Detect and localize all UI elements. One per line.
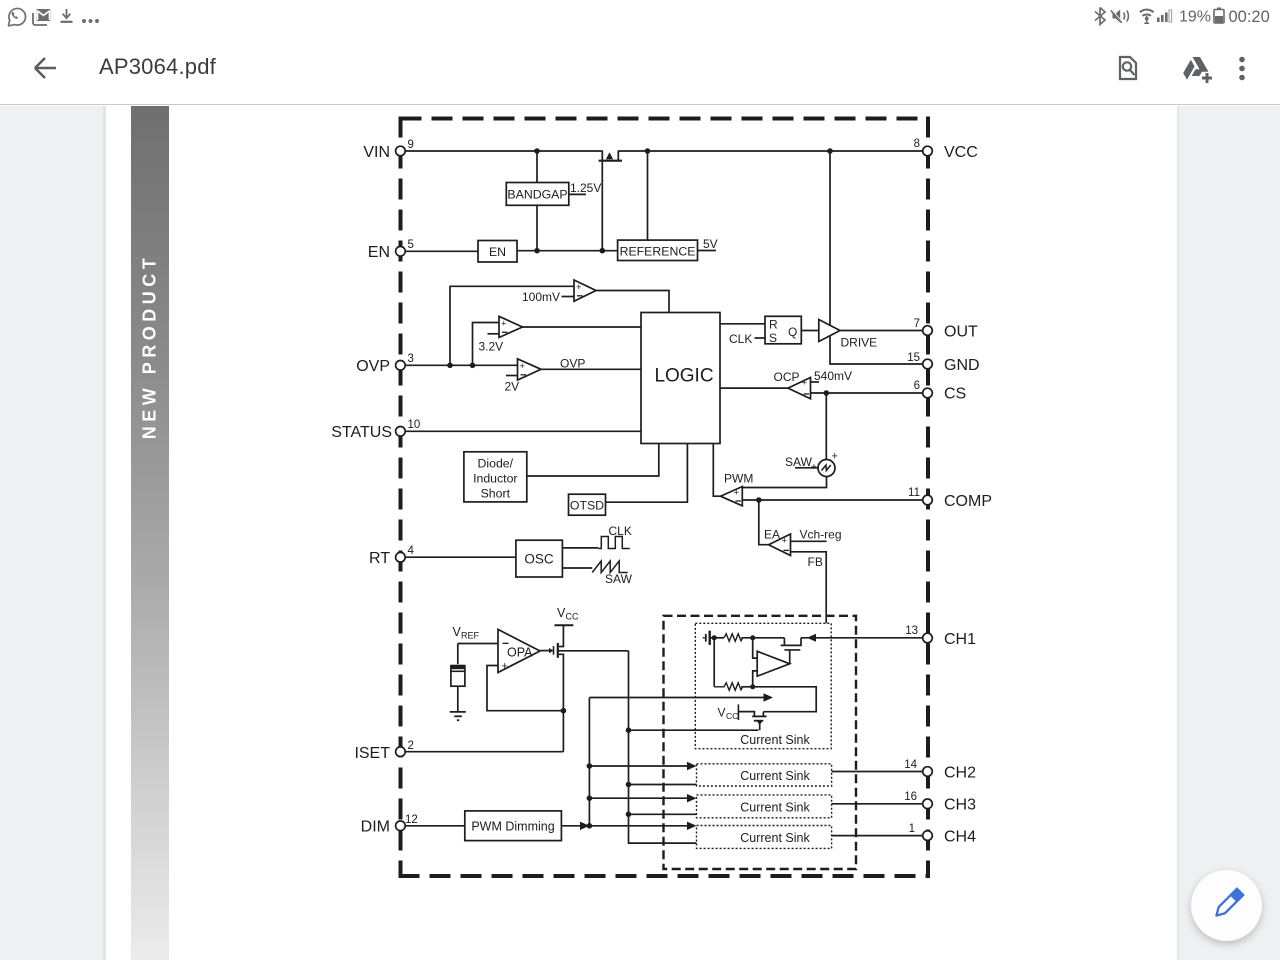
pin circle CH1 [923, 633, 933, 643]
svg-text:REFERENCE: REFERENCE [620, 244, 696, 258]
svg-text:Diode/: Diode/ [478, 457, 514, 471]
wire EA minus input FB line down to current sink [791, 552, 827, 624]
label 540mV with stub [811, 369, 853, 383]
svg-text:540mV: 540mV [814, 369, 852, 383]
IC outer dashed boundary left [399, 117, 403, 877]
node bias bus CH2 junction [626, 782, 632, 788]
floating action button [1191, 870, 1262, 941]
svg-text:2: 2 [408, 740, 414, 752]
wire ISET pin2 [405, 751, 563, 753]
svg-text:BANDGAP: BANDGAP [507, 187, 567, 201]
current sink CH4 dotted box [697, 826, 832, 849]
svg-text:Inductor: Inductor [473, 472, 517, 486]
wire OTSD to LOGIC bottom [606, 444, 688, 503]
current sink group dashed box [664, 616, 857, 869]
wire EN pin5 to EN block [405, 250, 478, 252]
svg-text:V: V [718, 706, 726, 720]
wire VIN pin9 to transistor Q1 source [405, 150, 602, 152]
wire gate bus vertical [588, 698, 590, 826]
svg-text:11: 11 [908, 487, 920, 499]
svg-text:RT: RT [369, 550, 390, 567]
svg-text:REF: REF [461, 631, 480, 641]
wire OVP pin3 line to 2V comparator [405, 364, 518, 366]
op-amp CH1 sense amplifier [757, 651, 790, 676]
download notification icon [61, 9, 73, 22]
wire CH2 source line [629, 784, 697, 786]
viewer gray background left strip [0, 106, 103, 960]
wire PWM output to LOGIC bottom [713, 444, 720, 497]
svg-text:6: 6 [914, 380, 920, 392]
wire CH1 left leg [713, 638, 715, 687]
label 5V with stub [698, 237, 718, 251]
op-amp OCP comparator [788, 377, 811, 399]
pin circle STATUS [396, 427, 406, 437]
op-amp OPA [498, 629, 540, 672]
wire capacitor to ground [457, 686, 459, 711]
wire CH1 gate drive with arrow [589, 693, 773, 701]
node COMP-EA junction [756, 497, 762, 503]
label CLK with stub to S input [729, 332, 765, 346]
svg-text:CH3: CH3 [944, 797, 976, 814]
block EN [478, 241, 517, 263]
battery reference mark in CH1 [703, 631, 710, 645]
flip-flop RS latch U2 [765, 316, 801, 345]
node CH1 amp upper input junction [750, 635, 755, 640]
svg-text:Current Sink: Current Sink [740, 769, 810, 783]
wire CH4 gate drive with arrow [589, 822, 696, 830]
op-amp EA error amplifier [769, 534, 791, 556]
block BANDGAP [506, 183, 569, 206]
svg-text:14: 14 [904, 759, 917, 771]
svg-text:OUT: OUT [944, 323, 978, 340]
svg-text:OSC: OSC [524, 552, 554, 567]
svg-text:+: + [832, 451, 838, 463]
pin circle ISET [396, 747, 406, 757]
pin circle DIM [396, 821, 406, 831]
wire CH2 output to pin14 [832, 771, 922, 773]
IC outer dashed boundary bottom [399, 874, 931, 878]
svg-text:9: 9 [408, 139, 414, 151]
mute icon [1111, 10, 1129, 23]
svg-text:COMP: COMP [944, 493, 992, 510]
svg-text:+: + [576, 282, 582, 293]
wire CH1 pin13 to M1 drain with arrow [801, 634, 922, 642]
transistor Q1 pass device on VIN [599, 151, 622, 251]
node BANDGAP-EN junction [534, 248, 540, 254]
svg-text:EN: EN [489, 245, 506, 259]
svg-text:Vch-reg: Vch-reg [800, 528, 842, 542]
wire OVP to 100mV comparator input [450, 286, 574, 365]
label VCC rail [557, 606, 579, 622]
svg-text:16: 16 [904, 791, 917, 803]
pin circle COMP [923, 495, 933, 505]
resistor R1 [724, 634, 743, 642]
svg-text:15: 15 [907, 352, 920, 364]
op-amp 2V comparator [506, 359, 541, 380]
buffer DRIVE [819, 320, 877, 350]
wire VCC riser down to GND pin15 [830, 151, 923, 364]
wire Vch-reg stub to EA plus input [791, 540, 827, 542]
svg-text:CS: CS [944, 385, 966, 402]
svg-text:STATUS: STATUS [331, 424, 392, 441]
svg-text:Q: Q [788, 325, 797, 339]
svg-text:12: 12 [405, 814, 418, 826]
svg-text:DIM: DIM [361, 819, 390, 836]
svg-text:CH1: CH1 [944, 631, 976, 648]
overflow menu icon [1239, 57, 1245, 81]
svg-text:SAW: SAW [605, 572, 633, 586]
op-amp PWM comparator [721, 487, 743, 506]
svg-text:OTSD: OTSD [570, 499, 604, 513]
label SAW+ with underline stub [785, 455, 819, 473]
wire CH1 source line [629, 729, 759, 731]
wire CH4 output to pin1 [832, 835, 922, 837]
label VCC gate bias [718, 706, 739, 722]
op-amp 100mV comparator [562, 280, 597, 301]
waveform CLK pulses [598, 537, 630, 549]
svg-text:3.2V: 3.2V [479, 340, 504, 354]
svg-text:8: 8 [914, 138, 920, 150]
ellipsis notification [82, 19, 99, 23]
wire Q1 drain to VCC pin8 [618, 150, 923, 152]
node gate bus dim junction [587, 823, 593, 829]
wire EN block to REFERENCE block [517, 250, 618, 252]
back arrow [35, 58, 56, 78]
wire bias bus vertical [629, 651, 697, 843]
svg-text:Current Sink: Current Sink [740, 733, 810, 747]
svg-text:FB: FB [808, 555, 823, 569]
resistor R2 [714, 683, 743, 691]
signal bars icon [1157, 10, 1172, 22]
battery icon [1214, 8, 1224, 24]
transistor M3 output fet [738, 704, 766, 730]
node OVP riser junction B [470, 363, 476, 369]
label 1.25V with stub [569, 181, 602, 195]
svg-text:10: 10 [408, 419, 421, 431]
block LOGIC [641, 313, 720, 444]
svg-text:13: 13 [905, 625, 918, 637]
transistor Q3 OPA output follower [540, 625, 563, 751]
svg-text:OVP: OVP [356, 358, 390, 375]
pencil edit icon [1213, 889, 1243, 919]
node gate bus CH3 junction [587, 795, 593, 801]
power rail VCC bar [555, 624, 574, 626]
svg-text:R: R [769, 318, 778, 332]
viewer gray background right strip [1177, 106, 1280, 960]
wire 100mV comparator output to LOGIC top [596, 291, 669, 314]
node CS-SAW junction [824, 390, 830, 396]
svg-text:5V: 5V [703, 237, 718, 251]
node VIN-BANDGAP junction [534, 148, 540, 154]
svg-text:GND: GND [944, 357, 980, 374]
node CH1 top-left junction [712, 635, 717, 640]
block OTSD [569, 494, 606, 515]
wire 3.2V comparator output to LOGIC [523, 326, 642, 328]
block Diode/Inductor Short [464, 452, 527, 502]
pin circle CS [923, 388, 933, 398]
wire EA output up to COMP line [759, 500, 769, 545]
svg-text:CLK: CLK [729, 332, 752, 346]
svg-text:CH2: CH2 [944, 764, 976, 781]
pin circle CH3 [923, 799, 933, 809]
wire CH3 output to pin16 [832, 803, 922, 805]
wire STATUS pin10 to LOGIC [405, 430, 641, 432]
IC outer dashed boundary right [926, 117, 930, 877]
svg-text:CLK: CLK [609, 524, 632, 538]
wifi icon [1140, 10, 1154, 24]
pin circle VCC [923, 146, 933, 156]
svg-text:5: 5 [408, 239, 414, 251]
node bias bus CH3 junction [626, 812, 632, 818]
svg-text:EN: EN [368, 244, 390, 261]
transistor M1 sense fet [781, 638, 802, 664]
svg-text:Short: Short [481, 487, 511, 501]
wire R1 to M1 source [741, 637, 784, 639]
svg-text:+: + [802, 377, 808, 388]
wire REFERENCE riser [647, 151, 649, 240]
svg-text:+: + [782, 536, 788, 547]
svg-text:4: 4 [408, 545, 415, 557]
wire DIM pin12 to PWM Dimming block [405, 825, 465, 827]
pin circle GND [923, 359, 933, 369]
node CH1 bottom junction [750, 684, 755, 689]
wire amp upper input [753, 638, 758, 658]
svg-text:CC: CC [726, 711, 738, 721]
wire CH3 source line [629, 813, 697, 815]
svg-text:7: 7 [914, 318, 920, 330]
whatsapp notification icon [8, 8, 25, 25]
ground symbol [450, 712, 466, 720]
wire 2V comparator output to LOGIC with OVP net label [541, 368, 641, 370]
wire CH1 top rail [711, 637, 725, 639]
svg-text:OCP: OCP [774, 370, 800, 384]
block REFERENCE [618, 240, 698, 260]
wire CH3 gate drive with arrow [589, 794, 696, 802]
node OVP riser junction A [447, 363, 453, 369]
node Q1 gate to EN line junction [600, 248, 606, 254]
wire VREF to OPA inverting input [458, 644, 498, 665]
svg-text:Current Sink: Current Sink [740, 800, 810, 814]
wire Diode/Inductor Short to LOGIC bottom [527, 444, 659, 477]
svg-text:DRIVE: DRIVE [841, 336, 878, 350]
node bias bus CH1 junction [626, 727, 632, 733]
waveform SAW ramp [592, 561, 628, 573]
block PWM Dimming [465, 811, 562, 841]
google drive add icon [1183, 57, 1212, 83]
svg-text:3: 3 [408, 353, 414, 365]
svg-text:OPA: OPA [507, 646, 533, 660]
wire RT pin4 to OSC [405, 556, 516, 558]
bluetooth icon [1095, 8, 1105, 25]
node VCC-GND riser junction [827, 148, 833, 154]
pin circle RT [396, 552, 406, 562]
app toolbar [0, 32, 1280, 105]
svg-text:Current Sink: Current Sink [740, 831, 810, 845]
svg-text:CH4: CH4 [944, 828, 976, 845]
wire Q output to DRIVE buffer [801, 330, 819, 332]
wire COMP pin11 to PWM inverting input [742, 499, 923, 501]
svg-text:1.25V: 1.25V [570, 181, 601, 195]
wire LOGIC to RS flip-flop R input [720, 323, 765, 325]
svg-text:+: + [520, 361, 526, 372]
svg-text:VIN: VIN [363, 144, 390, 161]
current sink CH2 dotted box [697, 764, 832, 786]
wire amp lower input [753, 671, 758, 687]
svg-text:VCC: VCC [944, 144, 978, 161]
pin circle EN [396, 247, 406, 257]
current sink CH1 dotted box [695, 623, 831, 748]
status bar [0, 0, 1280, 32]
wire OSC SAW output [562, 567, 592, 569]
svg-text:PWM Dimming: PWM Dimming [471, 819, 554, 833]
wire PWM Dimming output arrow to gate bus [561, 822, 589, 830]
svg-text:+: + [501, 319, 507, 330]
wire OPA feedback from plus input [487, 666, 563, 711]
svg-text:+: + [502, 661, 508, 673]
svg-text:ISET: ISET [354, 745, 390, 762]
wire Q3 body output to sink bias bus [558, 650, 629, 652]
pin circle CH2 [923, 767, 933, 777]
svg-text:+: + [734, 487, 740, 498]
wire DRIVE output to OUT pin7 [840, 330, 923, 332]
svg-text:SAW: SAW [785, 455, 813, 469]
wire SAW source to PWM comparator plus input [742, 477, 826, 488]
svg-text:2V: 2V [505, 380, 520, 394]
wire CS pin6 to OCP inverting input [811, 392, 924, 394]
svg-text:S: S [769, 331, 777, 345]
svg-text:PWM: PWM [724, 471, 753, 485]
block OSC [516, 540, 563, 577]
current source SAW generator [818, 451, 838, 477]
wire bottom rail to M3 drain [741, 687, 816, 712]
node VIN-REFERENCE junction [645, 148, 651, 154]
label VREF [453, 625, 480, 641]
new product banner [131, 106, 169, 960]
capacitor reference filter [450, 665, 465, 687]
pin circle OUT [923, 326, 933, 336]
IC outer dashed boundary top [401, 117, 929, 121]
svg-text:1: 1 [909, 823, 915, 835]
svg-text:100mV: 100mV [522, 290, 560, 304]
pin circle VIN [396, 146, 406, 156]
gmail notification icon [33, 9, 51, 25]
svg-text:OVP: OVP [560, 356, 585, 370]
wire CS junction down to SAW current source [825, 393, 827, 460]
svg-text:CC: CC [566, 612, 579, 622]
pin circle CH4 [923, 831, 933, 841]
op-amp 3.2V comparator [488, 316, 523, 337]
wire OCP output to LOGIC [720, 387, 788, 389]
pin circle OVP [396, 361, 406, 371]
svg-text:LOGIC: LOGIC [654, 366, 713, 387]
wire OVP to 3.2V comparator input [473, 323, 500, 366]
wire CH2 gate drive with arrow [589, 762, 696, 770]
wire BANDGAP riser VIN to EN line [536, 151, 538, 251]
wire OSC CLK output [562, 547, 598, 549]
current sink CH3 dotted box [697, 795, 832, 818]
node ISET feedback junction [561, 708, 567, 714]
node gate bus CH2 junction [587, 763, 593, 769]
find in page icon [1120, 57, 1136, 79]
